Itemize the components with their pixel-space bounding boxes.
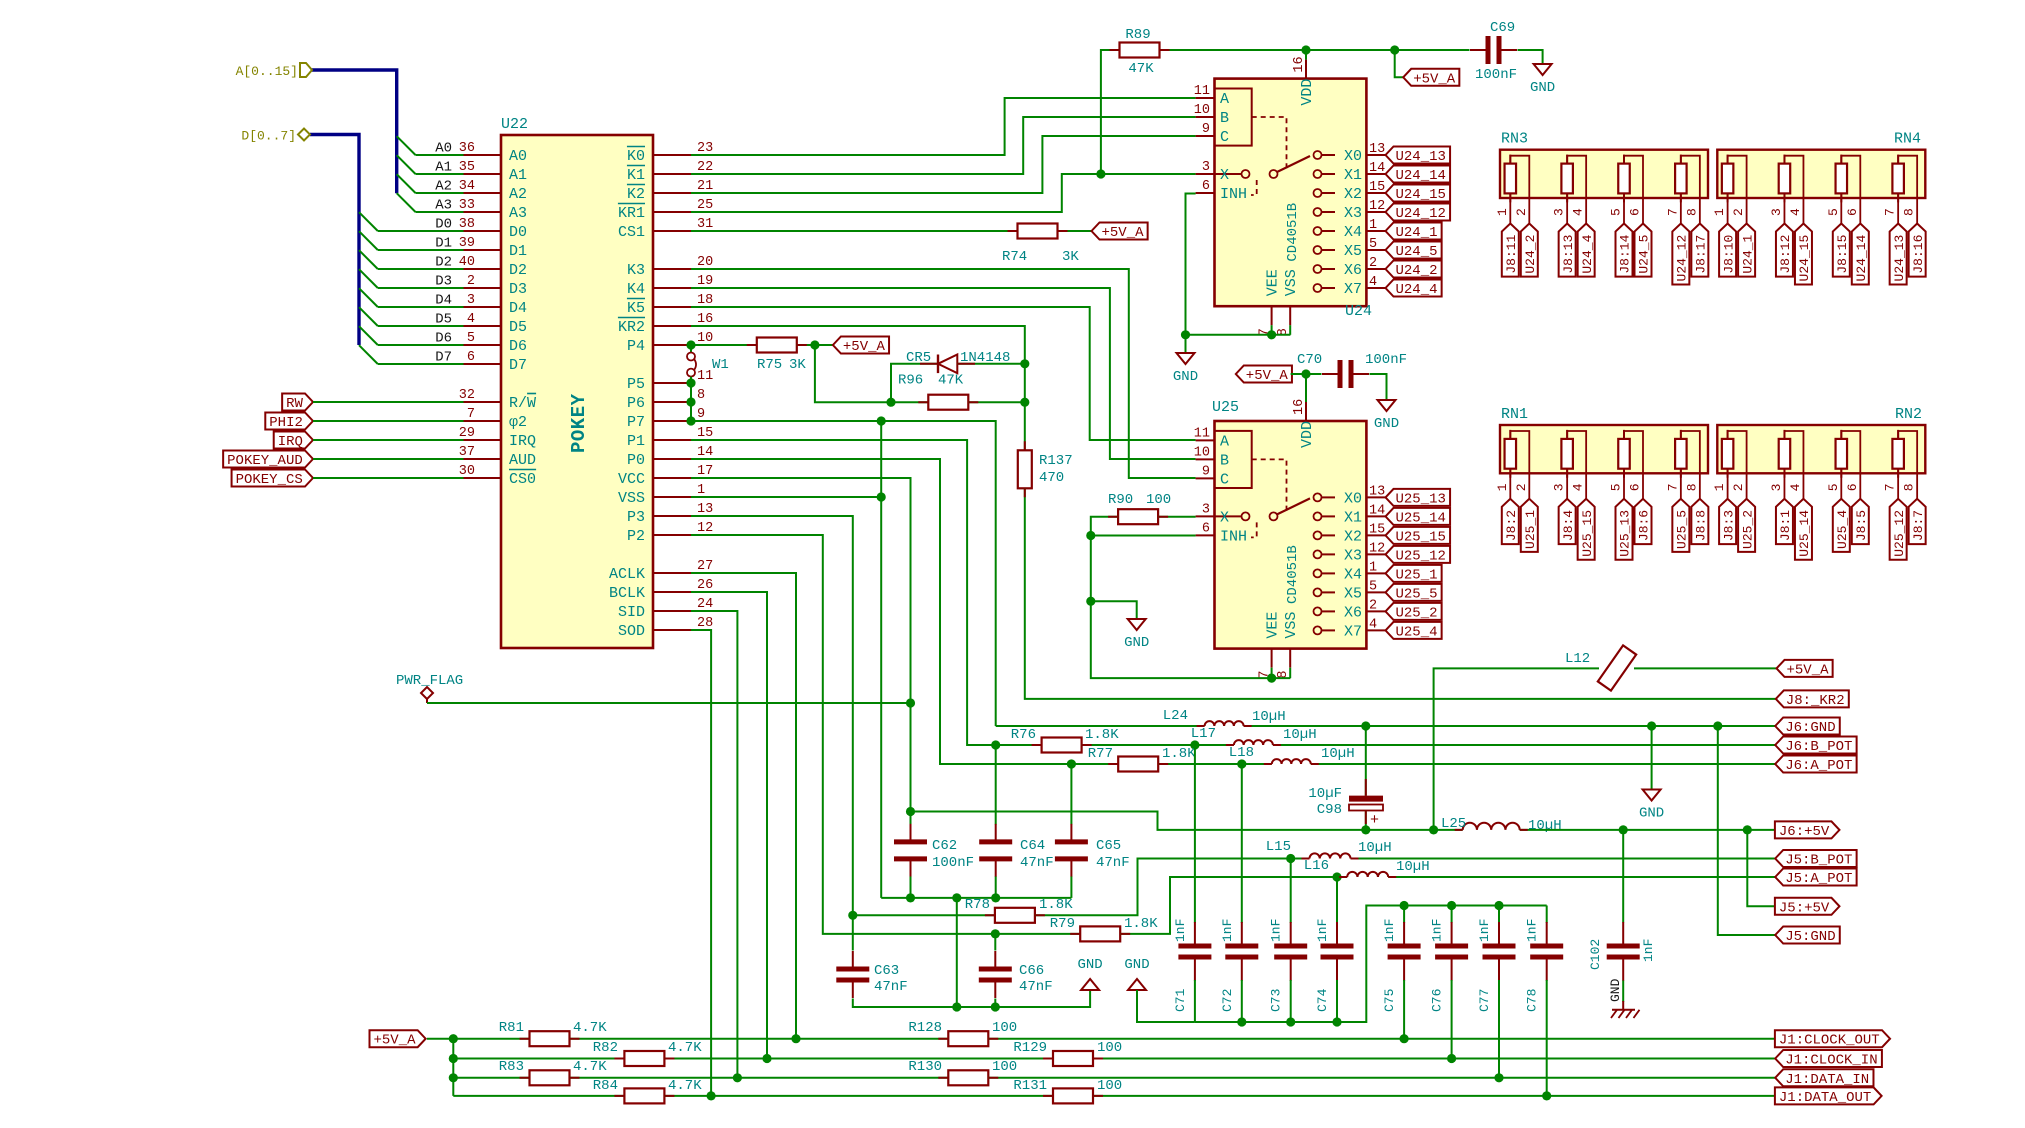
wires A0-A3 to U22 [416,154,464,156]
svg-text:VSS: VSS [1283,269,1300,296]
svg-text:4: 4 [1571,208,1586,216]
svg-text:J5:GND: J5:GND [1785,929,1835,945]
svg-text:C69: C69 [1490,20,1515,36]
svg-text:R81: R81 [499,1020,524,1036]
svg-text:470: 470 [1039,470,1064,486]
svg-text:9: 9 [697,407,705,422]
U24 left pin names and numbers [1196,97,1215,99]
bus A[0..15] [311,70,397,193]
svg-text:3: 3 [1769,208,1784,216]
svg-text:KR1: KR1 [618,205,645,222]
svg-text:100nF: 100nF [1475,67,1517,83]
junction R78-C63 [848,911,857,920]
junction C78 bottom [1542,1091,1551,1100]
resistor R77 [1118,757,1158,772]
svg-text:D1: D1 [509,243,527,260]
svg-text:+5V_A: +5V_A [1413,71,1456,87]
capacitor C62 [910,824,912,877]
svg-text:RN3: RN3 [1501,131,1528,148]
diode CR5 1N4148 [937,355,939,374]
svg-text:POKEY: POKEY [568,393,590,453]
svg-text:PHI2: PHI2 [269,415,303,431]
svg-text:2: 2 [1369,256,1377,271]
junction R77-C65 [1067,759,1076,768]
svg-text:1nF: 1nF [1220,919,1235,942]
capacitor C69 [1470,49,1517,51]
svg-text:11: 11 [1194,426,1210,441]
svg-text:K1: K1 [627,167,645,184]
svg-text:12: 12 [697,521,713,536]
svg-text:D0: D0 [509,224,527,241]
global label J1:CLOCK_IN [1775,1050,1882,1067]
wire INH U25 [1091,535,1196,537]
wire L15 to J5:B_POT [1351,858,1776,860]
svg-text:13: 13 [1369,484,1385,499]
svg-text:RN1: RN1 [1501,406,1528,423]
svg-text:J6:GND: J6:GND [1785,720,1835,736]
wire R81 to R128 to J1:CLOCK_OUT [570,1038,949,1040]
svg-text:1: 1 [1495,208,1510,216]
svg-text:A3: A3 [435,198,452,214]
resistor network RN2 body [1717,425,1925,473]
svg-text:+5V_A: +5V_A [1787,662,1830,678]
svg-text:X7: X7 [1344,281,1362,298]
ferrite bead L12 [1598,645,1636,690]
svg-text:3: 3 [1552,208,1567,216]
junction C98 plus [1361,825,1370,834]
resistor R130 [948,1070,988,1085]
resistor R89 [1120,43,1160,58]
junction BCLK [762,1054,771,1063]
svg-text:C71: C71 [1173,988,1188,1012]
svg-text:L12: L12 [1565,651,1590,667]
svg-text:L15: L15 [1266,839,1291,855]
svg-text:A1: A1 [509,167,527,184]
svg-text:R79: R79 [1050,916,1075,932]
junction VSS [877,492,886,501]
resistor R128 [948,1031,988,1046]
svg-text:6: 6 [1628,208,1643,216]
junction R79-C66 [991,929,1000,938]
svg-text:A0: A0 [509,148,527,165]
svg-text:16: 16 [1292,399,1307,415]
U24 internal switch [1215,173,1242,175]
global label J1:DATA_IN [1775,1069,1873,1086]
svg-text:21: 21 [697,179,713,194]
svg-text:8: 8 [1902,483,1917,491]
wire PWR_FLAG to VCC [427,702,911,704]
capacitor C71 1nF [1194,745,1196,923]
svg-text:36: 36 [459,141,475,156]
svg-text:4.7K: 4.7K [573,1059,607,1075]
power label +5V_A (R74) [1092,223,1148,240]
resistor network RN1 body [1500,425,1708,473]
junction P4 [686,340,695,349]
svg-text:P2: P2 [627,528,645,545]
junction L18-C72 [1237,759,1246,768]
svg-text:1: 1 [1369,218,1377,233]
junction R76-C64 [991,740,1000,749]
svg-text:X3: X3 [1344,205,1362,222]
svg-text:100: 100 [1146,492,1171,508]
inductor L15 [1310,853,1351,858]
svg-text:X4: X4 [1344,224,1362,241]
wire R82 to R129 to J1:CLOCK_IN [664,1058,1053,1060]
svg-text:R76: R76 [1011,727,1036,743]
svg-text:CS0: CS0 [509,471,536,488]
wire U24 gnd stub [1185,335,1187,353]
wire L25 to J6:+5V [1520,829,1775,831]
svg-text:23: 23 [697,141,713,156]
resistor R76 [1042,738,1082,753]
svg-text:11: 11 [1194,84,1210,99]
junction PWR_FLAG [906,698,915,707]
junction C77 bottom [1494,1073,1503,1082]
power label +5V_A (R75) [833,337,889,354]
svg-text:6: 6 [1845,208,1860,216]
svg-text:K3: K3 [627,262,645,279]
ground GND (J6 row) [1643,790,1661,801]
U22 right pins [653,154,691,156]
svg-text:P0: P0 [627,452,645,469]
power label +5V_A (top) [1403,69,1459,86]
junction R96 node [886,398,895,407]
svg-text:27: 27 [697,559,713,574]
svg-text:X0: X0 [1344,148,1362,165]
svg-text:P4: P4 [627,338,645,355]
svg-text:5: 5 [1826,208,1841,216]
svg-text:U25_4: U25_4 [1396,624,1438,640]
svg-text:AUD: AUD [509,452,536,469]
svg-text:10µH: 10µH [1283,727,1317,743]
wire C63 branch [852,915,854,950]
svg-text:U24_5: U24_5 [1396,244,1438,260]
svg-text:RW: RW [286,396,303,412]
svg-text:IRQ: IRQ [278,434,303,450]
svg-text:L18: L18 [1229,745,1254,761]
U24 X0-X7 switch contacts [1314,151,1322,159]
svg-text:4.7K: 4.7K [668,1040,702,1056]
svg-text:2: 2 [467,274,475,289]
svg-text:INH: INH [1220,186,1247,203]
svg-text:16: 16 [1292,56,1307,72]
wire C70 to GND [1370,374,1387,400]
wire U24 VDD to +5V rail [1305,50,1307,60]
svg-text:RN2: RN2 [1895,406,1922,423]
svg-text:GND: GND [1124,957,1149,973]
wire K4 to U25 B [691,288,1196,459]
wire J5:+5V riser [1747,830,1775,906]
svg-text:6: 6 [1202,521,1210,536]
svg-text:D4: D4 [435,293,452,309]
RN2 resistor element 3 [1836,439,1848,469]
RN3 resistor element 3 [1618,164,1630,194]
svg-text:R96: R96 [898,373,923,389]
svg-text:J6:B_POT: J6:B_POT [1785,739,1852,755]
junction C76 top [1447,901,1456,910]
svg-text:J8:10: J8:10 [1721,235,1736,274]
wire CR5 to KR2 [957,363,1025,365]
wire R76 to L17 [1082,744,1234,746]
svg-text:INH: INH [1220,528,1247,545]
svg-text:CD4051B: CD4051B [1285,203,1301,262]
svg-text:D5: D5 [435,312,452,328]
svg-text:K5: K5 [627,300,645,317]
svg-text:J8:6: J8:6 [1637,510,1652,541]
component lead stubs [1110,49,1170,51]
svg-text:J8:11: J8:11 [1504,234,1519,273]
U25 X0-X7 switch contacts [1314,493,1322,501]
svg-text:BCLK: BCLK [609,585,645,602]
svg-text:3: 3 [1202,502,1210,517]
global label J1:CLOCK_OUT [1775,1030,1890,1047]
svg-text:GND: GND [1608,978,1623,1002]
svg-text:J8:4: J8:4 [1561,510,1576,541]
svg-text:J5:B_POT: J5:B_POT [1785,853,1852,869]
global labels RW PHI2 IRQ POKEY_AUD POKEY_CS with wires [282,394,313,411]
svg-text:J1:DATA_OUT: J1:DATA_OUT [1779,1090,1871,1106]
junction L17-C71 [1190,740,1199,749]
wire K5 to U25 A [691,307,1196,440]
svg-text:29: 29 [459,426,475,441]
svg-text:C62: C62 [932,838,957,854]
junction ACLK [791,1034,800,1043]
wire P3 down [691,516,853,915]
svg-text:4: 4 [1571,483,1586,491]
svg-text:47K: 47K [938,373,964,389]
svg-text:11: 11 [697,369,713,384]
wire R83 to R130 to J1:DATA_IN [570,1077,949,1079]
svg-text:5: 5 [1609,483,1624,491]
RN4 pins and labels [1727,198,1729,224]
junction U24 VDD [1301,45,1310,54]
wires U25 VEE VSS [1271,668,1273,678]
junction L12 riser [1429,825,1438,834]
junction C66 gnd [991,1002,1000,1011]
svg-text:R90: R90 [1108,492,1133,508]
power label +5V_A (bottom) [370,1030,426,1047]
ground sawtooth at C102 [1612,1001,1635,1010]
svg-text:J8:13: J8:13 [1561,235,1576,274]
inductor L24 [1205,721,1244,726]
wire U25 VDD stub [1305,374,1307,402]
svg-text:24: 24 [697,597,713,612]
svg-text:1nF: 1nF [1269,919,1284,942]
RN2 resistor element 2 [1779,439,1791,469]
wire W1 to P5 P6 P7 [690,377,692,421]
svg-text:9: 9 [1202,464,1210,479]
junction +5V_A tap [1390,45,1399,54]
svg-text:26: 26 [697,578,713,593]
svg-text:14: 14 [1369,503,1385,518]
U25 VDD pin 16 [1305,402,1307,421]
svg-text:D3: D3 [435,274,452,290]
wire K2 to U24 C [691,136,1196,193]
svg-text:7: 7 [467,407,475,422]
svg-text:17: 17 [697,464,713,479]
svg-text:10µH: 10µH [1321,746,1355,762]
svg-text:1nF: 1nF [1477,919,1492,942]
svg-text:U25_2: U25_2 [1740,510,1755,549]
global label J6:B_POT [1775,737,1856,754]
wire to GND symbol U25 [1091,601,1137,619]
RN4 resistor element 4 [1892,164,1904,194]
junction R81 [449,1034,458,1043]
junction U25 INH gnd [1086,531,1095,540]
svg-text:R/W: R/W [509,395,536,412]
svg-text:8: 8 [1684,208,1699,216]
svg-text:18: 18 [697,293,713,308]
svg-text:J8:17: J8:17 [1694,235,1709,274]
resistor R82 [624,1051,664,1066]
U24 VDD pin 16 [1305,60,1307,79]
junction GND drop [1647,721,1656,730]
svg-text:+5V_A: +5V_A [1102,225,1145,241]
svg-text:25: 25 [697,198,713,213]
junction J5 +5V riser [1743,825,1752,834]
junction C72 gnd [1237,1017,1246,1026]
junction P6 [686,397,695,406]
junction C73 gnd [1286,1017,1295,1026]
svg-text:20: 20 [697,255,713,270]
svg-text:15: 15 [1369,522,1385,537]
capacitor C72 1nF [1241,764,1243,923]
wire cap ground row [881,897,1071,899]
wire J5:GND riser [1718,726,1775,935]
svg-text:K0: K0 [627,148,645,165]
svg-text:P7: P7 [627,414,645,431]
svg-text:CD4051B: CD4051B [1285,545,1301,604]
hierarchical label D[0..7] [298,129,310,141]
ground GND (up, right) [1128,979,1146,990]
svg-text:X7: X7 [1344,623,1362,640]
svg-text:A[0..15]: A[0..15] [236,64,298,79]
svg-text:J1:DATA_IN: J1:DATA_IN [1785,1072,1869,1088]
svg-text:A2: A2 [509,186,527,203]
capacitor C77 1nF [1498,906,1500,924]
svg-text:VCC: VCC [618,471,645,488]
svg-text:J8:16: J8:16 [1911,235,1926,274]
svg-text:34: 34 [459,179,475,194]
svg-text:PWR_FLAG: PWR_FLAG [396,673,463,689]
U24 right pins X0-X7 [1366,154,1385,156]
power label +5V_A (L12) [1777,660,1833,677]
svg-text:POKEY_CS: POKEY_CS [236,472,303,488]
junction SID [733,1073,742,1082]
svg-text:U24_2: U24_2 [1396,263,1438,279]
svg-text:10µH: 10µH [1252,709,1286,725]
svg-text:J8:3: J8:3 [1721,510,1736,541]
junction SOD [707,1091,716,1100]
wire ACLK down [691,573,796,1039]
svg-text:2: 2 [1369,598,1377,613]
svg-text:P5: P5 [627,376,645,393]
wire L12 riser [1434,668,1599,830]
wire R82 row [453,1058,624,1060]
wire +5V_A vertical [427,1039,453,1096]
svg-text:14: 14 [697,445,713,460]
svg-text:D2: D2 [435,255,452,271]
junction U25 gnd branch [1086,597,1095,606]
U25 right pins X0-X7 [1366,496,1385,498]
svg-text:10µH: 10µH [1358,840,1392,856]
wire gnd drop to C63 row [956,898,958,1007]
svg-text:X2: X2 [1344,186,1362,203]
jumper W1 [690,345,692,352]
svg-text:VEE: VEE [1265,269,1282,296]
svg-text:U25_1: U25_1 [1523,510,1538,549]
ground GND below-left of U25 [1128,619,1146,630]
svg-text:15: 15 [697,426,713,441]
svg-text:4: 4 [1788,483,1803,491]
svg-text:+5V_A: +5V_A [843,339,886,355]
svg-text:VSS: VSS [1283,612,1300,639]
svg-text:B: B [1220,110,1229,127]
wire R90 left to ground chain [1091,517,1291,678]
svg-text:2: 2 [1514,208,1529,216]
svg-text:5: 5 [1369,237,1377,252]
bus D[0..7] [310,135,359,346]
svg-text:D7: D7 [435,350,452,366]
svg-text:X: X [1220,167,1229,184]
svg-text:X3: X3 [1344,547,1362,564]
svg-text:X5: X5 [1344,585,1362,602]
wire C66 branch [994,934,996,951]
svg-text:A1: A1 [435,160,452,176]
junction C62 gnd [906,893,915,902]
U25 internal switch [1215,515,1242,517]
svg-text:U24_14: U24_14 [1854,234,1869,281]
svg-text:U24_15: U24_15 [1396,187,1446,203]
svg-text:U24_15: U24_15 [1797,235,1812,282]
svg-text:32: 32 [459,388,475,403]
svg-text:1.8K: 1.8K [1162,746,1196,762]
wire C69 to GND [1518,50,1543,64]
svg-text:CS1: CS1 [618,224,645,241]
RN1 resistor element 1 [1505,439,1517,469]
svg-text:C70: C70 [1297,352,1322,368]
junction gnd drop [952,893,961,902]
wire to +5V_A label [1395,50,1404,77]
ground GND at C70 [1378,400,1396,411]
global label J6:+5V [1775,821,1840,838]
svg-text:C76: C76 [1430,989,1445,1012]
svg-text:C: C [1220,129,1229,146]
resistor R90 [1118,509,1158,524]
svg-text:J6:+5V: J6:+5V [1779,824,1830,840]
svg-text:100: 100 [1097,1040,1122,1056]
U25 left pin names and numbers [1196,439,1215,441]
svg-text:3: 3 [1769,483,1784,491]
svg-text:L16: L16 [1304,858,1329,874]
RN1 resistor element 4 [1675,439,1687,469]
svg-text:GND: GND [1639,806,1664,822]
junction P5 [686,378,695,387]
svg-text:GND: GND [1530,80,1555,96]
svg-text:RN4: RN4 [1894,131,1921,148]
svg-text:GND: GND [1173,369,1198,385]
svg-text:1nF: 1nF [1382,919,1397,942]
svg-text:5: 5 [467,331,475,346]
wire R90 to U25 X [1158,516,1196,518]
svg-text:R89: R89 [1125,27,1150,43]
wire P2 down [691,535,1080,934]
wire R81 row [453,1038,529,1040]
svg-text:13: 13 [697,502,713,517]
POKEY chip U22 [501,135,653,648]
svg-text:U24_2: U24_2 [1523,235,1538,274]
global label J8:_KR2 [1776,690,1849,707]
